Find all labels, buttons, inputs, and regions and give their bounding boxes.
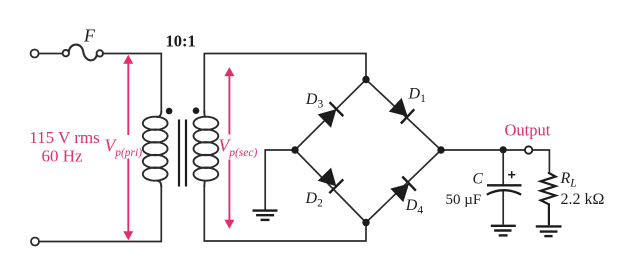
transformer secondary winding [194, 111, 219, 187]
wire secondary bottom rail to bridge [204, 186, 366, 241]
terminal output open circle [525, 146, 532, 153]
diode D1 [389, 98, 415, 124]
node top of bridge [362, 76, 369, 83]
diode D4 [390, 177, 416, 203]
node bottom of bridge [362, 219, 369, 226]
transformer phase dot primary [166, 108, 173, 115]
ground below resistor [536, 226, 562, 236]
arrow Vp(sec) [224, 67, 234, 229]
transformer phase dot secondary [193, 107, 200, 114]
arrow Vp(pri) [123, 55, 133, 241]
svg-text:Vp(pri): Vp(pri) [105, 136, 143, 160]
ground at bridge left node [253, 211, 278, 220]
wire fuse to transformer primary top [103, 54, 161, 113]
wire left node to ground [265, 150, 295, 210]
svg-text:F: F [83, 26, 96, 46]
svg-text:D1: D1 [408, 85, 427, 105]
terminal top-left [31, 50, 39, 58]
wire bottom-left rail [39, 186, 161, 242]
capacitor plus sign [508, 171, 515, 178]
svg-text:D4: D4 [405, 197, 424, 217]
fuse F [63, 45, 103, 61]
wire secondary top rail to bridge [204, 54, 366, 113]
wire capacitor lead top [502, 150, 504, 185]
svg-text:RL: RL [560, 170, 577, 190]
svg-text:D2: D2 [305, 190, 324, 210]
diode D2 [318, 168, 344, 194]
node right of bridge [437, 146, 444, 153]
svg-text:50 µF: 50 µF [446, 192, 482, 208]
transformer T primary winding [143, 111, 168, 187]
diode D3 [318, 102, 344, 128]
wire top-left to fuse [39, 53, 63, 55]
svg-text:115 V rms: 115 V rms [29, 128, 100, 147]
node left of bridge [291, 146, 298, 153]
transformer core [179, 120, 186, 187]
ground below capacitor [491, 226, 516, 236]
terminal bottom-left [31, 238, 39, 246]
svg-text:2.2 kΩ: 2.2 kΩ [561, 191, 605, 208]
bridge diamond wires [295, 80, 441, 223]
svg-text:Vp(sec): Vp(sec) [219, 136, 258, 160]
svg-text:C: C [473, 171, 484, 188]
capacitor C1 plates [487, 185, 522, 194]
svg-text:D3: D3 [305, 91, 324, 111]
resistor RL zigzag [541, 172, 556, 225]
wire right node to output [441, 150, 549, 173]
node capacitor junction [500, 146, 507, 153]
svg-text:10:1: 10:1 [166, 31, 196, 50]
svg-text:60 Hz: 60 Hz [41, 146, 83, 165]
wire capacitor lead bottom [502, 191, 504, 225]
svg-text:Output: Output [505, 120, 551, 139]
